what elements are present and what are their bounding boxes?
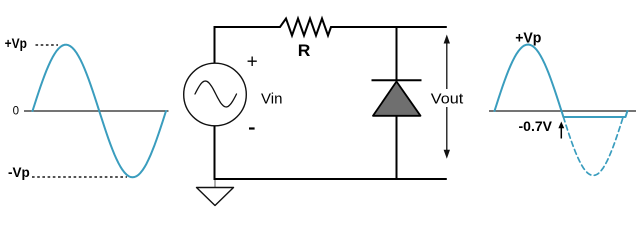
- svg-text:+: +: [247, 51, 258, 72]
- svg-text:-0.7V: -0.7V: [519, 118, 553, 134]
- svg-text:Vout: Vout: [431, 91, 464, 108]
- svg-text:+Vp: +Vp: [515, 29, 541, 46]
- svg-text:0: 0: [13, 105, 19, 117]
- svg-text:Vin: Vin: [261, 91, 282, 108]
- svg-text:+Vp: +Vp: [5, 35, 27, 51]
- svg-text:R: R: [298, 42, 311, 60]
- svg-text:-Vp: -Vp: [8, 164, 30, 180]
